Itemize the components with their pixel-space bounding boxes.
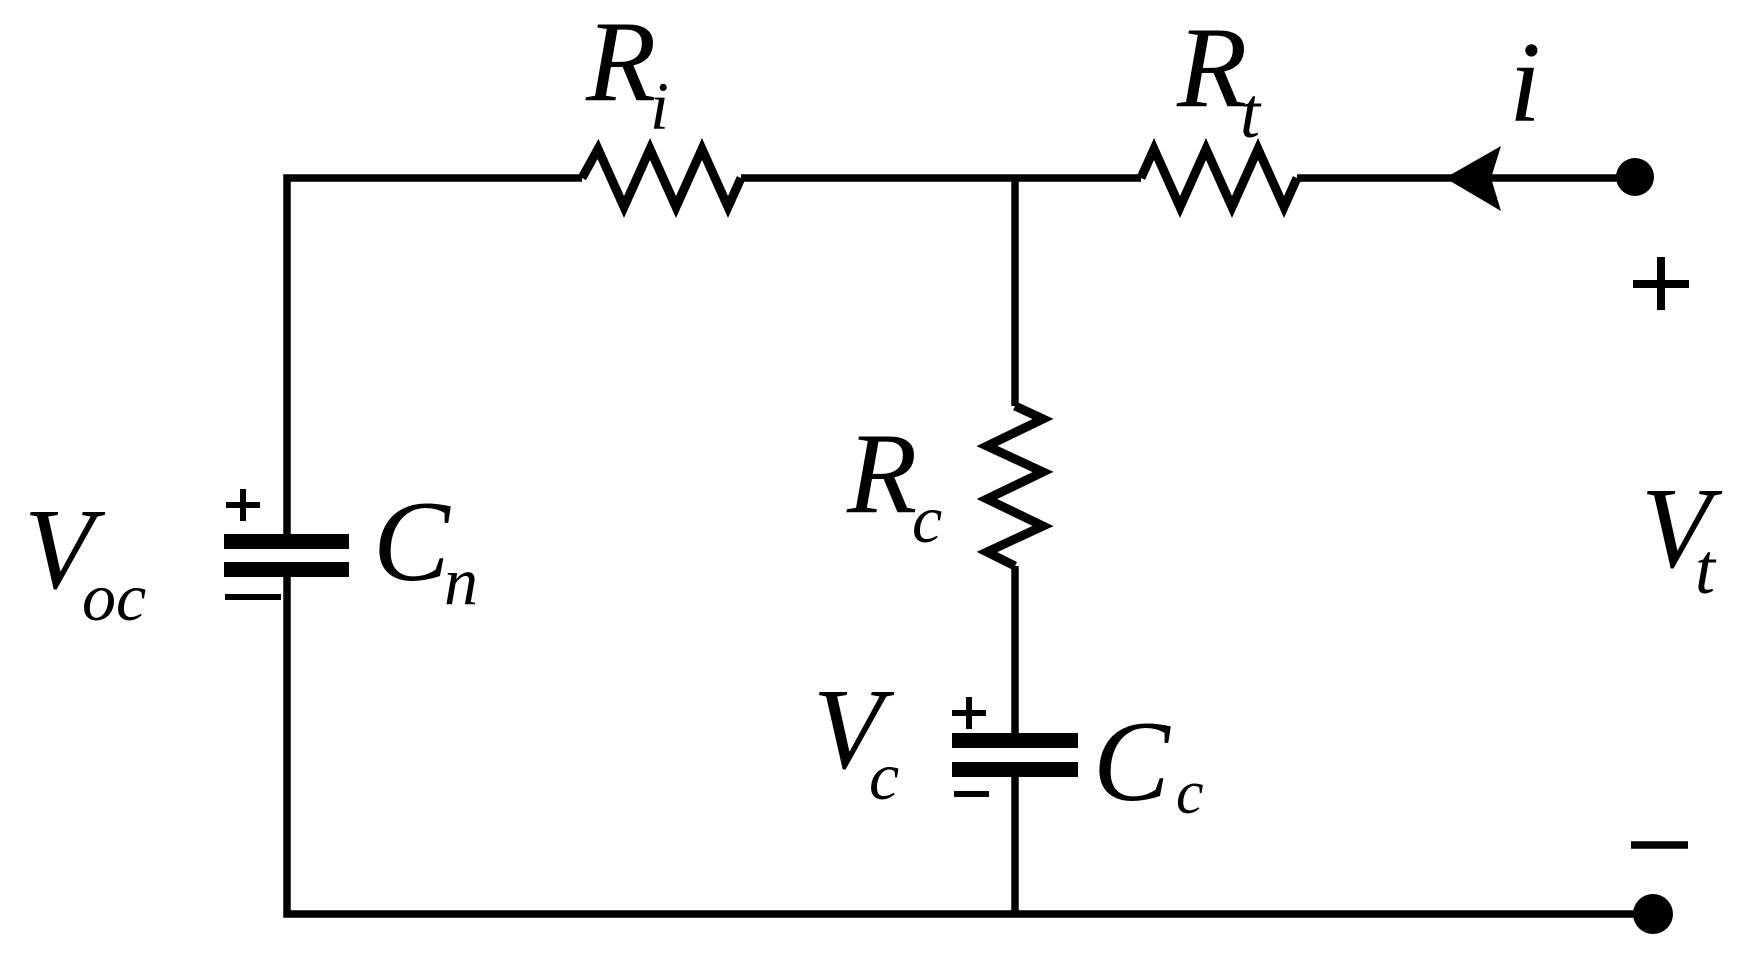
capacitor C_n top plate xyxy=(224,534,349,549)
svg-text:R: R xyxy=(846,410,917,537)
wire top-left L (left vertical upper + top horizontal to R_i) xyxy=(287,178,582,534)
svg-text:i: i xyxy=(650,68,669,144)
minus sign at C_n xyxy=(225,594,281,600)
svg-text:t: t xyxy=(1695,529,1717,609)
svg-text:i: i xyxy=(1509,19,1541,146)
svg-text:R: R xyxy=(1176,4,1247,131)
svg-text:R: R xyxy=(585,0,656,125)
wire top-middle (R_i to R_t) xyxy=(741,174,1141,182)
svg-text:c: c xyxy=(1176,759,1204,827)
terminal dot top right xyxy=(1616,158,1654,196)
capacitor C_c top plate xyxy=(952,733,1078,748)
terminal dot bottom right xyxy=(1633,894,1673,934)
resistor R_t xyxy=(1141,149,1297,207)
wire top-right (R_t to terminal) xyxy=(1297,174,1635,182)
capacitor C_n bottom plate xyxy=(224,562,349,577)
minus sign at right terminal xyxy=(1631,841,1688,849)
svg-text:oc: oc xyxy=(82,559,146,635)
svg-text:n: n xyxy=(444,543,478,619)
minus sign at C_c xyxy=(954,791,989,797)
plus sign at C_c xyxy=(952,697,986,729)
plus sign at C_n xyxy=(226,489,260,521)
svg-text:C: C xyxy=(1093,698,1171,825)
plus sign at right terminal xyxy=(1633,257,1689,310)
capacitor C_c bottom plate xyxy=(952,762,1078,777)
svg-text:t: t xyxy=(1240,73,1262,153)
resistor R_c xyxy=(987,406,1043,566)
wire middle vertical (junction node at top wire down to R_c) xyxy=(1011,178,1019,406)
svg-text:c: c xyxy=(912,481,942,557)
svg-text:C: C xyxy=(373,478,451,605)
wire bottom-left L (below C_n, corner, bottom horizontal) xyxy=(287,577,1653,914)
wire middle (R_c to C_c) xyxy=(1011,566,1019,733)
current arrow (i) xyxy=(1445,146,1501,211)
svg-text:c: c xyxy=(869,738,899,814)
resistor R_i xyxy=(582,149,741,207)
wire middle lower (C_c to bottom wire) xyxy=(1011,777,1019,914)
